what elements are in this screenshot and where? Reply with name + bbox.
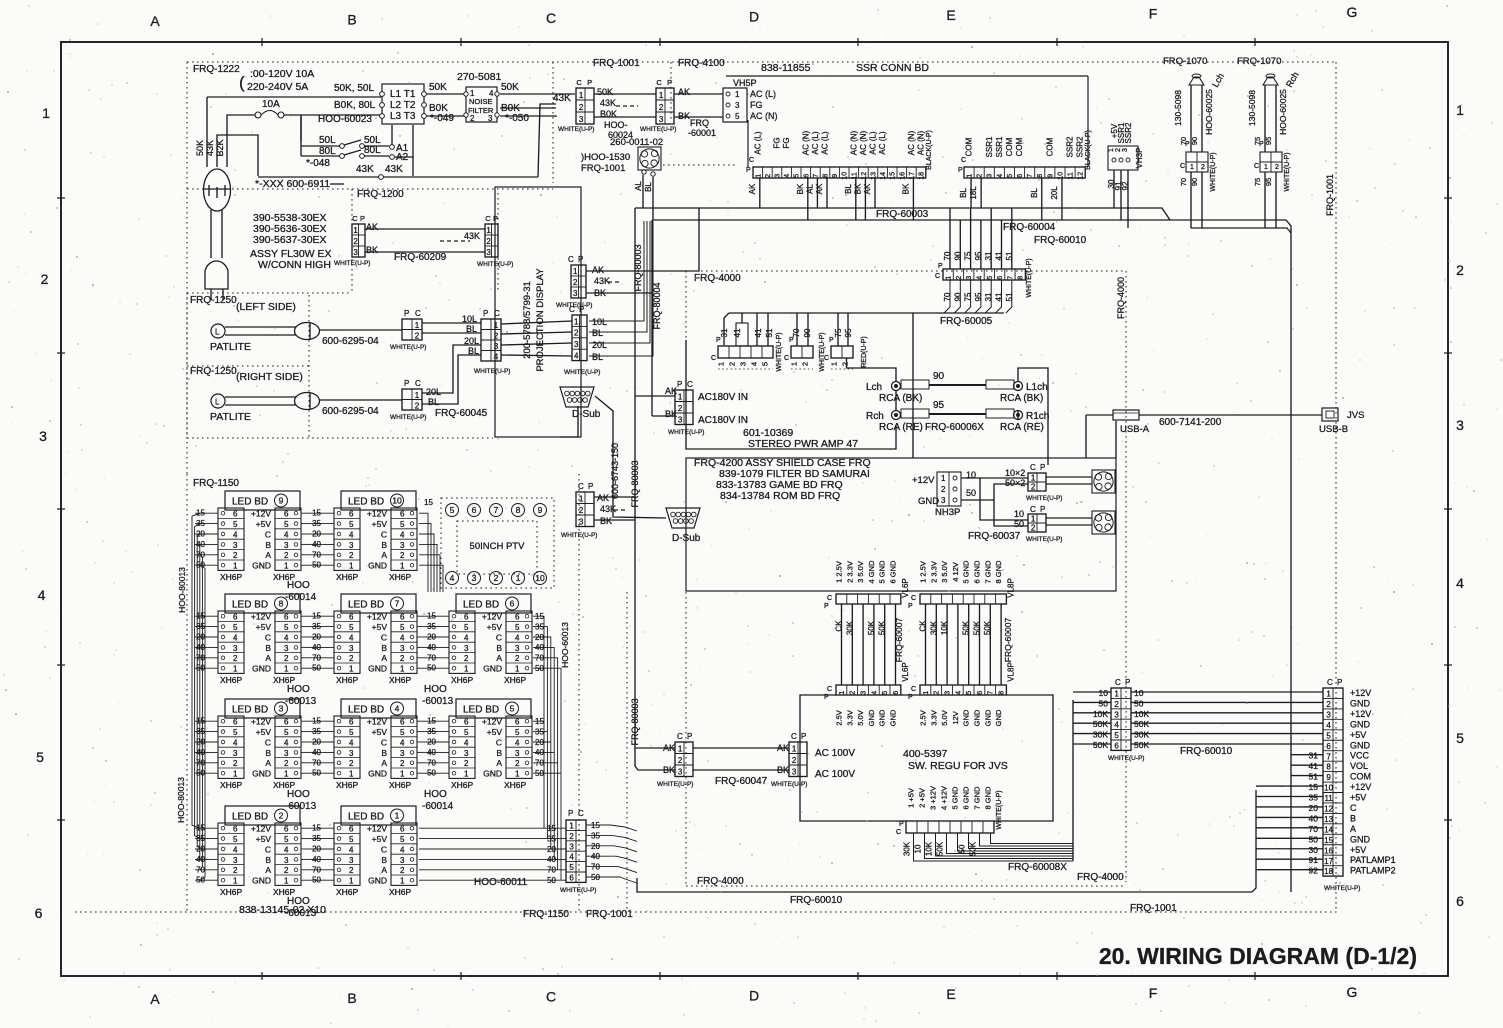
svg-text:260-0011-02: 260-0011-02 bbox=[610, 137, 663, 148]
svg-text:43K: 43K bbox=[464, 231, 480, 241]
connector FRQ-60001 3p bbox=[640, 78, 716, 138]
D-Sub lower bbox=[666, 508, 701, 544]
svg-text:6: 6 bbox=[233, 825, 238, 834]
svg-text:6: 6 bbox=[284, 825, 289, 834]
svg-text:5: 5 bbox=[284, 728, 289, 737]
svg-text:C: C bbox=[576, 78, 582, 87]
svg-text:+5V: +5V bbox=[256, 834, 272, 844]
svg-text:1 +5V: 1 +5V bbox=[907, 788, 916, 808]
svg-text:2: 2 bbox=[284, 866, 289, 875]
svg-text:USB-B: USB-B bbox=[1319, 424, 1348, 435]
LED BD 3 pin name labels bbox=[251, 717, 271, 779]
svg-text:+5V: +5V bbox=[372, 727, 388, 737]
svg-text:2: 2 bbox=[574, 329, 579, 338]
svg-text:70: 70 bbox=[427, 758, 436, 767]
svg-text:B: B bbox=[381, 540, 387, 550]
svg-text:130-5098: 130-5098 bbox=[1173, 90, 1183, 126]
svg-text:VL6P: VL6P bbox=[901, 662, 910, 682]
svg-text:3: 3 bbox=[349, 749, 354, 758]
wires LED BD 1 to HOO-60011 bbox=[419, 828, 566, 880]
svg-text:6: 6 bbox=[349, 825, 354, 834]
LED BD 6 board bbox=[456, 594, 531, 613]
svg-text:GND: GND bbox=[918, 496, 939, 507]
svg-text:HOO-80013: HOO-80013 bbox=[177, 567, 187, 613]
label 838-13145-02 x10 bbox=[239, 904, 326, 916]
svg-text:2: 2 bbox=[415, 401, 420, 410]
svg-text:SSR1: SSR1 bbox=[985, 136, 994, 157]
svg-text:BL: BL bbox=[644, 182, 653, 192]
connector FRQ-1200 right 3p bbox=[477, 214, 513, 268]
svg-text:C: C bbox=[1180, 163, 1185, 170]
dashed box FRQ-1222 bbox=[187, 62, 553, 189]
svg-text:50K: 50K bbox=[501, 82, 519, 93]
svg-text:20L: 20L bbox=[426, 387, 441, 397]
svg-text:9: 9 bbox=[1047, 174, 1054, 178]
connector HOO-60011 6p bbox=[474, 809, 596, 894]
svg-text:1: 1 bbox=[1190, 164, 1194, 171]
svg-text:A: A bbox=[265, 865, 271, 875]
svg-text:5: 5 bbox=[400, 728, 405, 737]
svg-text:FRQ-60045: FRQ-60045 bbox=[435, 408, 488, 419]
svg-text:5 GND: 5 GND bbox=[951, 786, 960, 810]
svg-text:50K: 50K bbox=[962, 620, 971, 635]
svg-text:1: 1 bbox=[735, 90, 740, 99]
svg-text:C: C bbox=[791, 732, 797, 741]
svg-text:C: C bbox=[415, 309, 421, 318]
svg-text:C: C bbox=[824, 355, 829, 362]
connector AC180V IN 3p bbox=[665, 380, 748, 436]
svg-text:B: B bbox=[496, 643, 502, 653]
svg-text:1: 1 bbox=[515, 770, 520, 779]
svg-text:3: 3 bbox=[1114, 710, 1119, 719]
svg-text:AC (N): AC (N) bbox=[907, 130, 916, 155]
svg-text:1: 1 bbox=[349, 562, 354, 571]
svg-text:2.5V: 2.5V bbox=[919, 710, 928, 725]
LED BD 5 left wire stubs bbox=[426, 717, 449, 778]
svg-text:GND: GND bbox=[867, 709, 876, 726]
svg-text:50INCH PTV: 50INCH PTV bbox=[470, 541, 526, 552]
svg-text:220-240V 5A: 220-240V 5A bbox=[247, 81, 308, 93]
connector 2p 75/95 red bbox=[824, 328, 868, 369]
connector VL6P upper strip bbox=[824, 560, 910, 610]
svg-text:A: A bbox=[265, 758, 271, 768]
svg-text:3: 3 bbox=[515, 749, 520, 758]
svg-text:2: 2 bbox=[486, 237, 491, 246]
svg-text:8: 8 bbox=[1037, 174, 1044, 178]
svg-text:43K: 43K bbox=[600, 98, 616, 108]
svg-text:5: 5 bbox=[1326, 731, 1331, 740]
svg-text:600-6743-150: 600-6743-150 bbox=[610, 443, 620, 499]
svg-text:FRQ-60010: FRQ-60010 bbox=[1034, 235, 1087, 246]
svg-text:WHITE(U-P): WHITE(U-P) bbox=[1324, 885, 1360, 892]
svg-text:FRQ-60003: FRQ-60003 bbox=[876, 209, 929, 220]
svg-text:4: 4 bbox=[38, 587, 46, 603]
speaker Lch FRQ-1070 bbox=[1163, 56, 1226, 228]
svg-text:C: C bbox=[381, 529, 387, 539]
svg-text:7: 7 bbox=[1007, 276, 1014, 280]
svg-text:HOO-60013: HOO-60013 bbox=[560, 622, 570, 668]
svg-text:1: 1 bbox=[233, 562, 238, 571]
svg-text:6: 6 bbox=[233, 613, 238, 622]
svg-text:1: 1 bbox=[573, 267, 578, 276]
connector projection display 4p bbox=[564, 305, 607, 376]
svg-text:PATLAMP1: PATLAMP1 bbox=[1350, 855, 1396, 865]
svg-text:RCA (RE): RCA (RE) bbox=[1000, 422, 1044, 433]
connector fan1 2p bbox=[1005, 463, 1092, 502]
svg-text::00-120V 10A: :00-120V 10A bbox=[250, 68, 314, 80]
svg-text:1 2.5V: 1 2.5V bbox=[919, 561, 928, 583]
svg-text:3 5.0V: 3 5.0V bbox=[940, 561, 949, 583]
LED BD 8 pin name labels bbox=[251, 612, 271, 674]
svg-text:1: 1 bbox=[349, 770, 354, 779]
svg-text:35: 35 bbox=[312, 622, 321, 631]
svg-text:XH6P: XH6P bbox=[336, 572, 359, 582]
svg-text:200-5788/5799-31: 200-5788/5799-31 bbox=[522, 281, 533, 359]
LED BD 4 left wire stubs bbox=[311, 717, 334, 778]
svg-text:2: 2 bbox=[233, 759, 238, 768]
svg-text:P: P bbox=[824, 603, 829, 610]
svg-text:2: 2 bbox=[400, 759, 405, 768]
svg-text:5: 5 bbox=[233, 728, 238, 737]
svg-text:WHITE(U-P): WHITE(U-P) bbox=[776, 332, 783, 371]
svg-text:6: 6 bbox=[977, 691, 984, 695]
svg-text:2: 2 bbox=[284, 759, 289, 768]
svg-text:XH6P: XH6P bbox=[220, 675, 243, 685]
svg-text:50: 50 bbox=[427, 769, 436, 778]
svg-text:B: B bbox=[265, 540, 271, 550]
svg-text:1: 1 bbox=[1031, 514, 1036, 523]
svg-text:P: P bbox=[1040, 505, 1045, 514]
svg-text:PROJECTION DISPLAY: PROJECTION DISPLAY bbox=[535, 268, 546, 372]
svg-text:GND: GND bbox=[483, 664, 502, 674]
SSR conn bd outline 838-11855 bbox=[726, 62, 1088, 167]
svg-text:FRQ-60005: FRQ-60005 bbox=[940, 316, 993, 327]
svg-text:1: 1 bbox=[569, 822, 574, 831]
USB-A connector bbox=[1086, 410, 1150, 458]
svg-text:P: P bbox=[677, 380, 682, 389]
wires filter to connector bbox=[500, 82, 575, 124]
svg-text:8: 8 bbox=[1018, 276, 1025, 280]
svg-text:AC (N): AC (N) bbox=[859, 130, 868, 155]
svg-text:1: 1 bbox=[42, 105, 50, 121]
svg-text:+12V: +12V bbox=[251, 717, 271, 727]
svg-text:FRQ-1001: FRQ-1001 bbox=[586, 909, 633, 920]
LED BD 7 pin name labels bbox=[367, 612, 387, 674]
svg-text:6: 6 bbox=[510, 599, 515, 609]
svg-text:10: 10 bbox=[1324, 784, 1333, 793]
svg-text:B: B bbox=[347, 12, 356, 28]
svg-text:5: 5 bbox=[233, 835, 238, 844]
connector 2p 70/90 bbox=[784, 328, 826, 372]
fan top right 2 bbox=[1092, 511, 1115, 534]
SSR 12pin bottom labels and wires bbox=[959, 178, 1062, 220]
svg-text:35: 35 bbox=[427, 727, 436, 736]
svg-text:2: 2 bbox=[284, 551, 289, 560]
svg-text:1: 1 bbox=[400, 562, 405, 571]
svg-text:4: 4 bbox=[515, 738, 520, 747]
svg-text:12: 12 bbox=[861, 172, 868, 180]
svg-text:50K: 50K bbox=[1134, 719, 1149, 729]
svg-text:15: 15 bbox=[591, 821, 600, 830]
svg-text:13: 13 bbox=[871, 172, 878, 180]
svg-text:3: 3 bbox=[284, 541, 289, 550]
svg-text:A: A bbox=[381, 758, 387, 768]
svg-text:15: 15 bbox=[890, 172, 897, 180]
svg-text:2 3.3V: 2 3.3V bbox=[929, 561, 938, 583]
svg-text:AC (L): AC (L) bbox=[821, 131, 830, 154]
connector FL30W power 3p on projection box bbox=[556, 255, 620, 309]
svg-text:2: 2 bbox=[349, 866, 354, 875]
svg-text:(RIGHT SIDE): (RIGHT SIDE) bbox=[236, 371, 303, 383]
svg-text:-60013: -60013 bbox=[285, 801, 317, 812]
RCA link Rch bbox=[866, 400, 1049, 433]
svg-text:GND: GND bbox=[368, 664, 387, 674]
svg-text:1: 1 bbox=[579, 91, 584, 100]
LED BD 1 left wire stubs bbox=[311, 824, 334, 885]
svg-text:FRQ-60047: FRQ-60047 bbox=[715, 776, 768, 787]
svg-text:BK: BK bbox=[796, 183, 805, 194]
dashed label FRQ-1001 right bbox=[1325, 174, 1335, 216]
svg-text:GND: GND bbox=[368, 876, 387, 886]
svg-text:2: 2 bbox=[1114, 700, 1119, 709]
svg-text:1: 1 bbox=[349, 877, 354, 886]
svg-text:20. WIRING DIAGRAM (D-1/2): 20. WIRING DIAGRAM (D-1/2) bbox=[1099, 943, 1417, 969]
svg-text:6 GND: 6 GND bbox=[973, 560, 982, 584]
svg-text:4: 4 bbox=[515, 633, 520, 642]
svg-text:3: 3 bbox=[39, 428, 47, 444]
svg-text:+12V: +12V bbox=[482, 717, 502, 727]
svg-text:3: 3 bbox=[569, 842, 574, 851]
svg-text:A: A bbox=[265, 653, 271, 663]
svg-text:40: 40 bbox=[312, 855, 321, 864]
svg-text:B0K, 80L: B0K, 80L bbox=[334, 100, 376, 111]
svg-text:BL: BL bbox=[466, 324, 477, 334]
svg-text:HOO-60025: HOO-60025 bbox=[1204, 89, 1214, 135]
dashed separator FRQ-1001 / FRQ-4100 bbox=[593, 58, 725, 120]
svg-text:D-Sub: D-Sub bbox=[672, 533, 701, 544]
svg-text:+12V: +12V bbox=[367, 824, 387, 834]
svg-text:5 GND: 5 GND bbox=[962, 560, 971, 584]
stereo pwr amp outline + label bbox=[686, 340, 896, 450]
svg-text:2: 2 bbox=[1456, 262, 1464, 278]
SSR 18pin strip bbox=[753, 167, 926, 180]
svg-text:7: 7 bbox=[988, 691, 995, 695]
wires amp connectors to FRQ-60005 bus bbox=[724, 313, 848, 346]
svg-text:COM: COM bbox=[1045, 137, 1054, 156]
svg-text:AC (N): AC (N) bbox=[917, 130, 926, 155]
svg-text:41: 41 bbox=[733, 328, 742, 337]
svg-text:XH6P: XH6P bbox=[504, 675, 527, 685]
LED BD 2 left connector XH6P bbox=[218, 823, 244, 897]
svg-text:3: 3 bbox=[579, 517, 584, 526]
svg-text:+5V: +5V bbox=[487, 727, 503, 737]
LED BD 4 right connector XH6P bbox=[389, 716, 417, 790]
svg-text:B: B bbox=[381, 855, 387, 865]
svg-text:7: 7 bbox=[1326, 752, 1331, 761]
svg-text:FRQ-4000: FRQ-4000 bbox=[694, 273, 741, 284]
svg-text:10: 10 bbox=[392, 496, 402, 506]
LED BD 4 board bbox=[341, 699, 416, 718]
bus FRQ-60010 bottom bbox=[637, 790, 1256, 906]
LED BD 1 right connector XH6P bbox=[389, 823, 417, 897]
svg-text:2: 2 bbox=[728, 362, 737, 366]
svg-text:7 GND: 7 GND bbox=[973, 786, 982, 810]
svg-text:4: 4 bbox=[349, 633, 354, 642]
svg-text:+5V: +5V bbox=[372, 622, 388, 632]
svg-text:35: 35 bbox=[312, 834, 321, 843]
svg-text:1: 1 bbox=[353, 226, 358, 235]
svg-text:15: 15 bbox=[424, 498, 433, 507]
svg-text:6: 6 bbox=[349, 718, 354, 727]
svg-text:8: 8 bbox=[999, 691, 1006, 695]
LED BD 4 pin name labels bbox=[367, 717, 387, 779]
svg-text:3: 3 bbox=[349, 541, 354, 550]
svg-text:P: P bbox=[404, 379, 409, 388]
label *-XXX 600-6911 bbox=[255, 178, 344, 190]
svg-text:2 +5V: 2 +5V bbox=[918, 788, 927, 808]
wires AC180V to bus bbox=[635, 396, 675, 416]
svg-text:41: 41 bbox=[754, 328, 763, 337]
svg-text:FRQ-4100: FRQ-4100 bbox=[678, 58, 725, 69]
svg-text:COM: COM bbox=[965, 137, 974, 156]
svg-text:4: 4 bbox=[233, 633, 238, 642]
svg-text:6: 6 bbox=[400, 825, 405, 834]
svg-text:XH6P: XH6P bbox=[389, 572, 412, 582]
svg-text:PATLAMP2: PATLAMP2 bbox=[1350, 866, 1396, 876]
svg-text:2: 2 bbox=[850, 691, 857, 695]
svg-text:3: 3 bbox=[284, 856, 289, 865]
connector JVS 18p bbox=[1323, 678, 1396, 892]
wire fuse to terminal L3 bbox=[284, 115, 381, 141]
svg-text:70: 70 bbox=[1179, 178, 1188, 186]
svg-text:3: 3 bbox=[1326, 710, 1331, 719]
wire USB link 600-7141-200 bbox=[1139, 415, 1322, 428]
wires RCA to conn 75/95 and right bus bbox=[847, 358, 1049, 465]
svg-text:50K: 50K bbox=[878, 620, 887, 635]
svg-text:WHITE(U-P): WHITE(U-P) bbox=[556, 302, 592, 309]
svg-text:E: E bbox=[946, 7, 955, 23]
svg-text:FRQ-1001: FRQ-1001 bbox=[581, 163, 625, 174]
svg-text:1: 1 bbox=[233, 877, 238, 886]
svg-text:AC (L): AC (L) bbox=[869, 131, 878, 154]
svg-text:43K: 43K bbox=[356, 164, 374, 175]
fan top right 1 bbox=[1092, 470, 1115, 493]
svg-text:1: 1 bbox=[1114, 690, 1119, 699]
svg-text:+12V: +12V bbox=[482, 612, 502, 622]
svg-text:8 GND: 8 GND bbox=[984, 786, 993, 810]
svg-text:834-13784 ROM BD FRQ: 834-13784 ROM BD FRQ bbox=[720, 490, 840, 502]
svg-text:70: 70 bbox=[1309, 824, 1319, 834]
wires terminal to filter bbox=[427, 82, 464, 124]
svg-text:AC (L): AC (L) bbox=[753, 131, 762, 154]
svg-text:9: 9 bbox=[538, 505, 543, 515]
svg-text:41: 41 bbox=[1309, 761, 1319, 771]
svg-text:16: 16 bbox=[1324, 846, 1333, 855]
svg-text:1: 1 bbox=[967, 174, 974, 178]
svg-text:2: 2 bbox=[934, 691, 941, 695]
svg-text:20: 20 bbox=[312, 633, 321, 642]
svg-text:5: 5 bbox=[515, 728, 520, 737]
svg-text:4: 4 bbox=[1326, 721, 1331, 730]
svg-text:7 GND: 7 GND bbox=[983, 560, 992, 584]
svg-text:3 +12V: 3 +12V bbox=[929, 786, 938, 810]
svg-text:VOL: VOL bbox=[1350, 761, 1368, 771]
svg-text:6: 6 bbox=[284, 718, 289, 727]
svg-text:20: 20 bbox=[312, 738, 321, 747]
svg-text:AK: AK bbox=[592, 265, 604, 275]
svg-text:LED BD: LED BD bbox=[348, 497, 384, 508]
svg-text:10K: 10K bbox=[925, 841, 934, 856]
svg-text:+5V: +5V bbox=[372, 834, 388, 844]
svg-text:BK: BK bbox=[853, 183, 862, 194]
svg-text:2: 2 bbox=[977, 174, 984, 178]
svg-text:L1 T1: L1 T1 bbox=[390, 89, 416, 100]
svg-text:7: 7 bbox=[1027, 174, 1034, 178]
svg-text:18: 18 bbox=[919, 172, 926, 180]
svg-text:3: 3 bbox=[233, 541, 238, 550]
svg-text:Lch: Lch bbox=[1210, 71, 1226, 89]
FL30W assy part numbers bbox=[250, 212, 332, 271]
svg-text:WHITE(U-P): WHITE(U-P) bbox=[390, 344, 426, 351]
svg-text:2: 2 bbox=[233, 866, 238, 875]
svg-text:WHITE(U-P): WHITE(U-P) bbox=[558, 126, 594, 133]
svg-text:3: 3 bbox=[284, 644, 289, 653]
LED BD 3 left connector XH6P bbox=[218, 716, 244, 790]
svg-text:40: 40 bbox=[1309, 813, 1319, 823]
svg-text:*-048: *-048 bbox=[306, 158, 330, 169]
svg-text:40: 40 bbox=[535, 643, 544, 652]
wires FRQ-60005 cable bus bbox=[729, 280, 1012, 458]
svg-text:C: C bbox=[935, 273, 940, 280]
svg-text:FRQ-1150: FRQ-1150 bbox=[523, 909, 569, 920]
svg-text:5 GND: 5 GND bbox=[878, 560, 887, 584]
svg-text:5: 5 bbox=[1456, 730, 1464, 746]
wires HOO-60011 to bottom bus bbox=[586, 821, 637, 883]
svg-text:12: 12 bbox=[1324, 805, 1333, 814]
grid row numbers left bbox=[35, 105, 51, 921]
svg-text:4: 4 bbox=[450, 573, 455, 583]
svg-text:600-6295-04: 600-6295-04 bbox=[322, 406, 379, 417]
speaker Rch FRQ-1070 bbox=[1237, 56, 1301, 228]
svg-text:70: 70 bbox=[312, 865, 321, 874]
43K wire bus to connector bbox=[258, 93, 571, 179]
svg-text:15: 15 bbox=[535, 612, 544, 621]
title text bbox=[1099, 943, 1417, 969]
bus FRQ-60004 horizontal bbox=[652, 220, 1291, 892]
svg-text:1: 1 bbox=[349, 665, 354, 674]
svg-text:1: 1 bbox=[792, 744, 797, 753]
svg-text:6: 6 bbox=[233, 718, 238, 727]
svg-text:2: 2 bbox=[579, 103, 584, 112]
svg-text:90: 90 bbox=[933, 371, 945, 382]
svg-text:C: C bbox=[1350, 803, 1357, 813]
svg-text:FG: FG bbox=[782, 137, 791, 148]
svg-text:AK: AK bbox=[777, 743, 789, 753]
svg-text:1: 1 bbox=[233, 665, 238, 674]
svg-text:50: 50 bbox=[1014, 519, 1024, 529]
svg-text:BL: BL bbox=[468, 346, 479, 356]
svg-text:+5V: +5V bbox=[1350, 845, 1366, 855]
svg-text:2: 2 bbox=[792, 756, 797, 765]
svg-text:3: 3 bbox=[987, 174, 994, 178]
svg-text:1: 1 bbox=[516, 573, 521, 583]
svg-text:C: C bbox=[381, 632, 387, 642]
svg-text:A: A bbox=[381, 653, 387, 663]
svg-text:15: 15 bbox=[312, 824, 321, 833]
svg-text:WHITE(U-P): WHITE(U-P) bbox=[819, 332, 826, 371]
fuse 10A bbox=[255, 99, 284, 118]
svg-text:4: 4 bbox=[395, 704, 400, 714]
